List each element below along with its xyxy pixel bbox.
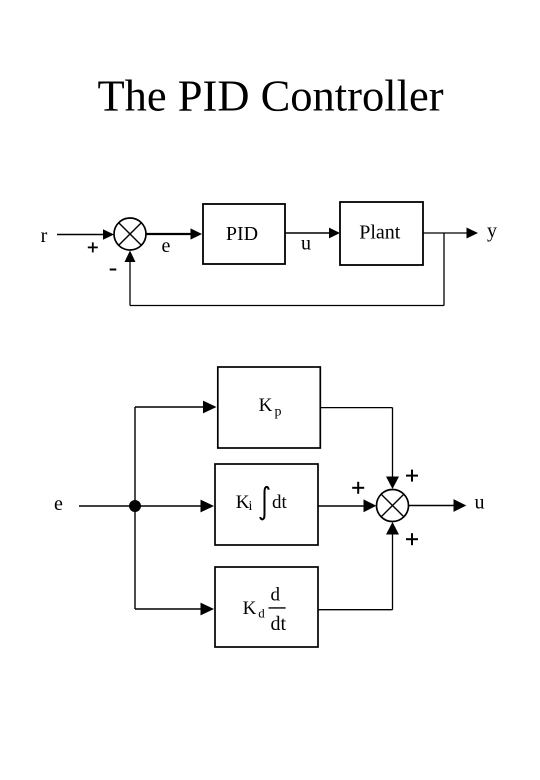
svg-text:r: r	[41, 225, 48, 247]
feedback wire: bottom horizontal	[130, 305, 444, 307]
wire branch node to Ki	[135, 505, 203, 507]
feedback wire: vertical drop from output line	[443, 233, 445, 306]
svg-text:e: e	[54, 493, 63, 515]
summing junction S2	[377, 490, 409, 522]
svg-text:dt: dt	[271, 613, 287, 635]
arrowhead into summing junction top	[386, 477, 399, 490]
arrowhead into Kp	[203, 401, 217, 414]
wire summing junction to u output	[409, 505, 455, 507]
svg-text:Plant: Plant	[359, 222, 401, 244]
wire r to summing junction	[57, 234, 104, 236]
wire corner down to summing junction top	[392, 408, 394, 478]
arrowhead at output y	[467, 228, 479, 239]
block Plant	[340, 202, 423, 265]
wire e to branch node	[79, 505, 135, 507]
svg-text:p: p	[275, 405, 282, 420]
block Kp	[218, 367, 320, 448]
block Ki with integral	[215, 464, 318, 545]
svg-text:PID: PID	[226, 223, 258, 245]
svg-text:u: u	[301, 233, 311, 255]
svg-text:y: y	[487, 220, 497, 242]
arrowhead into summing junction bottom	[386, 522, 399, 535]
svg-text:i: i	[248, 499, 252, 514]
wire summing junction to PID	[146, 233, 191, 235]
svg-text:The PID Controller: The PID Controller	[97, 71, 443, 121]
wire branch to Kd	[135, 608, 203, 610]
svg-text:dt: dt	[272, 492, 288, 513]
wire PID to Plant	[285, 232, 330, 234]
svg-text:d: d	[258, 606, 265, 621]
label u (top)	[301, 233, 311, 255]
label r	[41, 225, 48, 247]
svg-text:K: K	[243, 598, 257, 619]
plus sign at r input	[88, 242, 98, 252]
arrowhead at u output	[454, 499, 467, 512]
block Kd with derivative	[215, 567, 318, 647]
label e (error signal, top)	[162, 235, 171, 257]
svg-text:u: u	[475, 492, 485, 514]
wire corner up to summing junction bottom	[392, 534, 394, 610]
block PID	[203, 204, 285, 264]
feedback wire: vertical up to summing junction	[129, 262, 131, 306]
branch node (junction dot)	[129, 500, 141, 512]
plus sign bottom right of summing junction	[406, 533, 418, 545]
plus sign left of summing junction	[352, 482, 364, 494]
wire branch to Kp	[135, 406, 205, 408]
wire Kp to corner	[320, 407, 392, 409]
label e (bottom input)	[54, 493, 63, 515]
label y	[487, 220, 497, 242]
title: The PID Controller	[97, 71, 443, 121]
arrowhead into PID	[191, 228, 203, 239]
arrowhead into Plant	[329, 228, 340, 239]
wire Plant to output y	[423, 232, 467, 234]
arrowhead into summing junction left	[103, 229, 114, 240]
svg-text:e: e	[162, 235, 171, 257]
label u (bottom output)	[475, 492, 485, 514]
summing junction S1	[114, 218, 146, 250]
arrowhead into summing junction left	[364, 499, 377, 512]
svg-text:K: K	[259, 395, 273, 416]
wire Kd to corner	[318, 609, 393, 611]
arrowhead into Ki	[201, 500, 215, 513]
wire Ki to summing junction	[318, 505, 365, 507]
plus sign top right of summing junction	[406, 470, 418, 482]
arrowhead into summing junction bottom	[125, 251, 136, 263]
minus sign at feedback input	[110, 269, 117, 271]
arrowhead into Kd	[201, 603, 215, 616]
vertical branch bus	[134, 407, 136, 609]
svg-text:d: d	[271, 585, 281, 606]
